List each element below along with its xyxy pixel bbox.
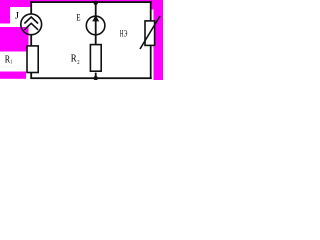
magenta top-right block	[152, 0, 164, 10]
svg-text:J: J	[15, 10, 19, 21]
wire: left branch top segment	[30, 1, 32, 14]
resistor R2 body	[90, 45, 101, 72]
resistor R1 body	[27, 46, 38, 73]
svg-text:Э: Э	[124, 29, 128, 39]
nonlinear element NE diagonal slash	[140, 16, 160, 49]
EMF source E arrow	[92, 15, 99, 21]
svg-text:2: 2	[77, 60, 79, 66]
nonlinear element NE body	[145, 21, 155, 46]
current source J upper chevron	[24, 17, 38, 24]
wire: right branch bottom segment	[150, 45, 152, 78]
wire: bottom conductor	[30, 77, 152, 79]
wire: middle branch bottom segment	[95, 73, 97, 78]
wire: middle branch through E source	[95, 2, 97, 45]
node: top junction dot	[94, 1, 98, 5]
wire: top conductor	[30, 1, 152, 3]
svg-text:1: 1	[10, 58, 12, 65]
current source J circle	[21, 14, 42, 35]
wire: left branch middle segment	[30, 35, 32, 47]
magenta mid-left block	[0, 27, 29, 52]
white paper background	[0, 0, 163, 80]
wire: left branch bottom segment	[30, 73, 32, 78]
magenta top edge strip	[0, 0, 163, 2]
magenta bottom-left block	[0, 72, 26, 79]
magenta right edge strip	[154, 0, 164, 80]
current source J lower chevron	[24, 23, 38, 30]
EMF source E circle	[86, 16, 105, 35]
svg-text:E: E	[76, 13, 80, 24]
node: bottom junction dot	[94, 76, 98, 80]
magenta left column beside J label	[0, 0, 10, 24]
wire: right branch top segment	[150, 1, 152, 21]
magenta top-left block above J label	[0, 0, 31, 7]
